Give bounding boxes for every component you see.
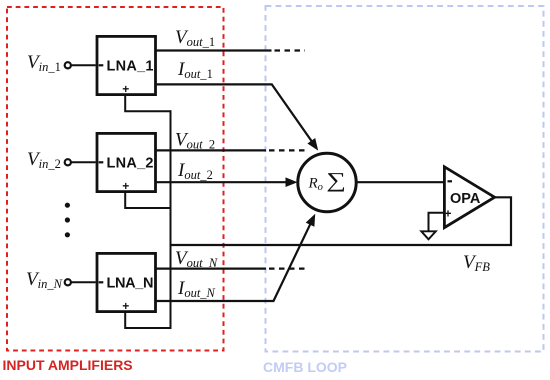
svg-text:Vin_N: Vin_N: [26, 269, 63, 291]
amplifier LNA_N: [97, 253, 156, 312]
svg-text:Iout_2: Iout_2: [177, 160, 213, 182]
wire LNA_N + input to feedback bus: [125, 312, 170, 328]
feedback bus vertical wire: [170, 110, 172, 329]
ellipsis dots: [65, 203, 70, 238]
label R_o: [308, 176, 323, 194]
svg-text:+: +: [122, 179, 129, 193]
label V_in_2: [27, 149, 61, 171]
wire I_out_2 to summer (arrow): [156, 177, 298, 187]
op-amp OPA: [444, 167, 494, 228]
amplifier LNA_1: [97, 36, 156, 95]
svg-text:+: +: [122, 299, 129, 313]
dashed continuation V_out_1: [275, 49, 306, 51]
wire OPA + input to ground: [429, 213, 444, 231]
wire LNA_2 + input to feedback bus: [125, 192, 170, 208]
label V_out_N: [175, 248, 218, 270]
svg-text:Iout_N: Iout_N: [177, 278, 216, 300]
svg-text:Vin_1: Vin_1: [27, 52, 61, 74]
dashed continuation V_out_N: [269, 268, 305, 270]
ground: [421, 231, 436, 239]
label V_in_1: [27, 52, 61, 74]
wire I_out_1 to summer (arrow): [156, 84, 319, 150]
input terminal V_in_1: [65, 62, 71, 68]
svg-text:LNA_N: LNA_N: [107, 276, 154, 292]
svg-text:LNA_1: LNA_1: [107, 59, 154, 75]
label V_in_N: [26, 269, 63, 291]
dashed continuation V_out_2: [269, 149, 305, 151]
svg-text:LNA_2: LNA_2: [107, 156, 154, 172]
wire LNA_1 + input to feedback bus: [125, 95, 170, 112]
svg-text:+: +: [122, 82, 129, 96]
wire V_out_1: [156, 49, 272, 51]
wire OPA output feedback V_FB: [171, 197, 512, 245]
svg-text:Vout_N: Vout_N: [175, 248, 218, 270]
svg-text:Vin_2: Vin_2: [27, 149, 61, 171]
svg-text:∑: ∑: [326, 169, 346, 192]
svg-text:CMFB LOOP: CMFB LOOP: [263, 359, 347, 375]
wire I_out_N to summer (arrow): [156, 214, 316, 301]
svg-text:Vout_2: Vout_2: [175, 130, 215, 152]
input terminal V_in_2: [65, 159, 71, 165]
svg-text:+: +: [445, 207, 452, 221]
wire V_out_N: [156, 268, 267, 270]
label INPUT AMPLIFIERS: [3, 357, 133, 373]
label V_out_2: [175, 130, 215, 152]
label I_out_N: [177, 278, 216, 300]
wire summer to OPA inverting input: [356, 181, 443, 183]
input terminal V_in_N: [65, 279, 71, 285]
label CMFB LOOP: [263, 359, 347, 375]
svg-text:INPUT AMPLIFIERS: INPUT AMPLIFIERS: [3, 357, 133, 373]
wire V_in_N to LNA_N: [71, 281, 96, 283]
label I_out_2: [177, 160, 213, 182]
label I_out_1: [177, 59, 213, 81]
wire V_in_2 to LNA_2: [71, 161, 96, 163]
label V_out_1: [175, 27, 215, 49]
svg-text:Iout_1: Iout_1: [177, 59, 213, 81]
wire V_in_1 to LNA_1: [71, 64, 96, 66]
label sigma: [326, 169, 346, 192]
input amplifiers boundary (red dashed box): [7, 7, 224, 351]
amplifier LNA_2: [97, 133, 156, 192]
label V_FB: [463, 252, 490, 274]
wire V_out_2: [156, 149, 267, 151]
svg-text:OPA: OPA: [450, 191, 481, 207]
svg-text:VFB: VFB: [463, 252, 490, 274]
svg-text:Vout_1: Vout_1: [175, 27, 215, 49]
CMFB loop boundary (blue dashed box): [266, 6, 544, 352]
summer U1 (R_o sum): [298, 153, 356, 211]
